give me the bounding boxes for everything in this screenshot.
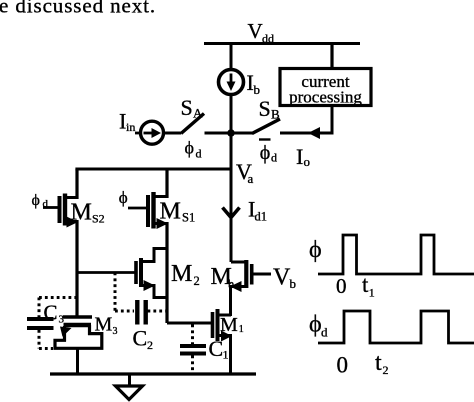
svg-text:M: M xyxy=(171,261,192,287)
svg-text:processing: processing xyxy=(289,88,362,107)
svg-text:ϕ: ϕ xyxy=(309,312,322,338)
svg-text:t: t xyxy=(375,350,382,376)
svg-text:d: d xyxy=(196,147,202,161)
svg-text:ϕ: ϕ xyxy=(119,188,128,207)
svg-text:dd: dd xyxy=(262,32,274,46)
svg-text:2: 2 xyxy=(194,274,200,288)
svg-text:b: b xyxy=(254,82,261,97)
svg-text:M: M xyxy=(160,199,181,225)
svg-text:b: b xyxy=(290,276,297,291)
svg-text:V: V xyxy=(273,265,291,291)
svg-text:ϕ: ϕ xyxy=(185,138,194,158)
svg-text:M: M xyxy=(220,314,238,336)
svg-text:1: 1 xyxy=(239,324,244,335)
svg-text:S: S xyxy=(181,95,193,120)
svg-text:M: M xyxy=(95,314,113,336)
svg-text:ϕ: ϕ xyxy=(260,142,271,164)
svg-text:a: a xyxy=(248,171,254,186)
svg-text:ϕ: ϕ xyxy=(309,237,322,263)
svg-text:d: d xyxy=(321,325,328,340)
svg-text:2: 2 xyxy=(383,363,389,377)
svg-text:C: C xyxy=(44,301,58,325)
svg-text:3: 3 xyxy=(113,326,118,337)
svg-text:A: A xyxy=(193,106,203,121)
svg-text:V: V xyxy=(248,19,263,43)
svg-text:d1: d1 xyxy=(255,210,268,224)
svg-text:M: M xyxy=(71,200,92,226)
svg-text:1: 1 xyxy=(223,348,229,362)
svg-text:b: b xyxy=(228,277,234,291)
svg-text:0: 0 xyxy=(337,352,349,377)
svg-text:d: d xyxy=(271,151,277,165)
svg-text:e discussed next.: e discussed next. xyxy=(0,0,156,18)
svg-text:S2: S2 xyxy=(92,212,105,226)
svg-text:3: 3 xyxy=(59,314,65,326)
svg-text:ϕ: ϕ xyxy=(32,192,40,209)
svg-text:0: 0 xyxy=(336,274,347,298)
svg-text:o: o xyxy=(304,154,311,169)
svg-text:C: C xyxy=(133,326,148,351)
svg-text:B: B xyxy=(271,107,280,122)
svg-text:C: C xyxy=(209,336,224,361)
svg-text:in: in xyxy=(126,120,135,134)
svg-text:1: 1 xyxy=(369,286,375,300)
svg-text:S: S xyxy=(259,96,271,121)
svg-text:S1: S1 xyxy=(182,211,195,225)
svg-text:2: 2 xyxy=(147,338,153,352)
svg-text:I: I xyxy=(296,144,303,169)
